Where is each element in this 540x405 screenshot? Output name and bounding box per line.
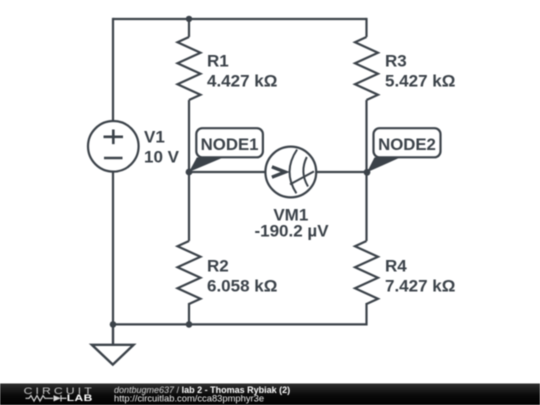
- junction dot R2/bottom wire: [186, 321, 193, 328]
- junction node NODE1: [186, 169, 193, 176]
- svg-text:NODE1: NODE1: [201, 135, 259, 154]
- svg-text:-190.2 µV: -190.2 µV: [254, 222, 329, 241]
- svg-text:7.427 kΩ: 7.427 kΩ: [385, 277, 455, 296]
- svg-text:10 V: 10 V: [144, 148, 180, 167]
- svg-text:4.427 kΩ: 4.427 kΩ: [207, 72, 277, 91]
- resistor R2: [178, 241, 201, 304]
- wire R1 top lead: [188, 19, 190, 37]
- voltmeter VM1: [265, 147, 316, 198]
- wire middle horizontal NODE1-VM1-NODE2: [189, 171, 367, 173]
- resistor R4: [355, 241, 378, 304]
- svg-text:NODE2: NODE2: [378, 135, 436, 154]
- wire right vertical (R3 bottom lead to node2): [365, 100, 367, 172]
- junction node NODE2: [364, 169, 371, 176]
- ground: [92, 324, 134, 364]
- wire right vertical (R3 top lead): [365, 18, 367, 37]
- node NODE2 label: [367, 128, 441, 172]
- svg-text:LAB: LAB: [67, 393, 93, 404]
- voltage source V1: [88, 121, 139, 172]
- junction dot ground/bottom wire: [110, 321, 117, 328]
- resistor R3: [355, 37, 378, 100]
- svg-text:R2: R2: [207, 257, 229, 276]
- wire R1 bottom lead to node1: [188, 100, 190, 172]
- wire R2 top lead: [188, 172, 190, 241]
- svg-text:http://circuitlab.com/cca83pmp: http://circuitlab.com/cca83pmphyr3e: [114, 393, 264, 404]
- resistor R1: [178, 37, 201, 100]
- svg-text:5.427 kΩ: 5.427 kΩ: [385, 72, 455, 91]
- wire left vertical (V1 bottom lead): [112, 171, 114, 324]
- svg-text:R1: R1: [207, 52, 229, 71]
- node NODE1 label: [189, 128, 263, 172]
- wire left vertical (V1 top lead): [112, 18, 114, 121]
- wire top horizontal: [113, 18, 367, 20]
- svg-text:R3: R3: [385, 52, 407, 71]
- wire bottom horizontal: [112, 323, 367, 325]
- CircuitLab logo resistor zigzag and diode: [26, 395, 67, 401]
- svg-text:6.058 kΩ: 6.058 kΩ: [207, 277, 277, 296]
- wire right vertical (R4 leads): [365, 172, 367, 325]
- svg-text:V1: V1: [144, 128, 165, 147]
- svg-text:R4: R4: [385, 257, 407, 276]
- wire R2 bottom lead: [188, 303, 190, 324]
- junction dot top (R1/top wire): [186, 16, 192, 22]
